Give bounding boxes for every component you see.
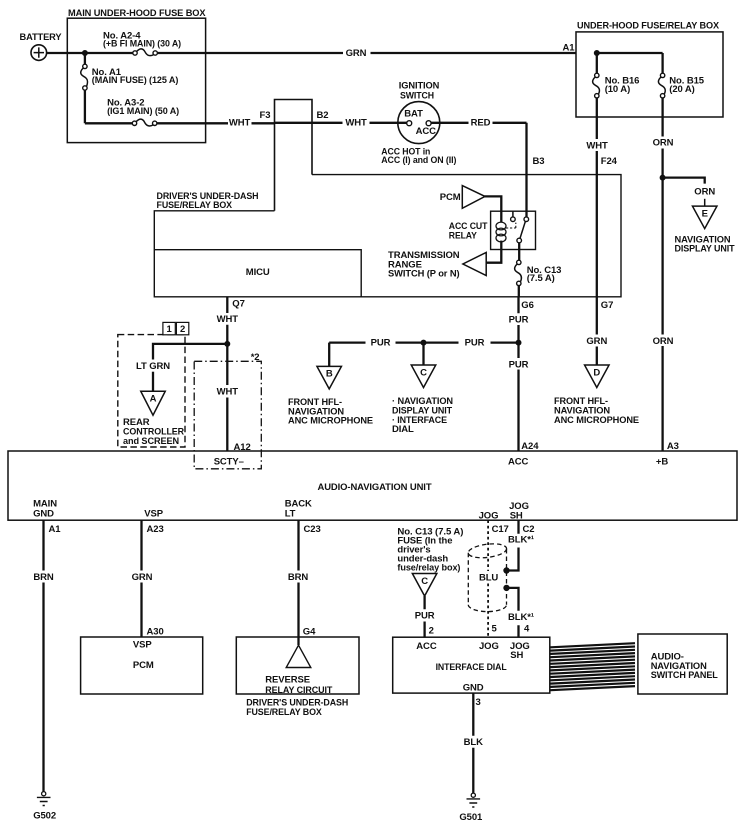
- wire ORN B15 down: [653, 138, 674, 451]
- svg-text:AUDIO-NAVIGATION UNIT: AUDIO-NAVIGATION UNIT: [318, 482, 432, 493]
- svg-text:D: D: [593, 367, 600, 378]
- svg-text:DISPLAY UNIT: DISPLAY UNIT: [675, 243, 735, 254]
- svg-text:B3: B3: [533, 156, 545, 167]
- rear controller dashed box: [118, 335, 185, 447]
- driver under-dash box F3/B2 pass-through bridge: [260, 100, 329, 211]
- svg-text:*2: *2: [251, 352, 260, 363]
- svg-text:FUSE/RELAY BOX: FUSE/RELAY BOX: [157, 200, 233, 211]
- connector pin squares 1 2: [163, 322, 189, 335]
- wire GRN battery to under-hood fuse/relay box A1: [47, 48, 576, 59]
- wire battery junction down to IG1 feed: [85, 53, 275, 123]
- wire JOG C17 dashed to pin 5: [479, 520, 498, 637]
- svg-text:and SCREEN: and SCREEN: [123, 436, 179, 447]
- svg-text:BATTERY: BATTERY: [20, 32, 63, 43]
- wire PUR G6 to A24: [509, 297, 540, 452]
- wire relay switch to fuse C13: [518, 243, 520, 260]
- svg-text:SWITCH PANEL: SWITCH PANEL: [651, 670, 718, 681]
- svg-text:JOG: JOG: [479, 511, 499, 522]
- ground G501: [459, 793, 483, 823]
- wire PUR connector C to interface dial pin 2: [415, 596, 435, 637]
- label ACC at A24: [508, 456, 529, 467]
- ignition switch: [381, 80, 456, 166]
- svg-text:GND: GND: [33, 508, 54, 519]
- svg-text:SWITCH (P or N): SWITCH (P or N): [388, 269, 460, 280]
- pin labels inside audio-navigation unit: [33, 499, 529, 522]
- svg-text:F24: F24: [601, 156, 618, 167]
- svg-text:(MAIN FUSE) (125 A): (MAIN FUSE) (125 A): [92, 75, 179, 86]
- wire WHT B2 to ignition switch BAT: [275, 118, 407, 129]
- svg-text:Q7: Q7: [232, 299, 244, 310]
- svg-text:GRN: GRN: [132, 572, 153, 583]
- svg-text:GRN: GRN: [586, 336, 607, 347]
- svg-text:BLK: BLK: [464, 737, 483, 748]
- wire PUR horizontal to microphones: [329, 337, 521, 348]
- svg-text:PUR: PUR: [465, 337, 485, 348]
- svg-text:SH: SH: [510, 650, 523, 661]
- svg-text:ACC (I) and ON (II): ACC (I) and ON (II): [381, 155, 456, 166]
- svg-text:VSP: VSP: [133, 640, 152, 651]
- label SCTY- at A12: [214, 456, 244, 467]
- svg-text:C2: C2: [523, 524, 535, 535]
- svg-text:BAT: BAT: [404, 108, 423, 119]
- svg-text:MICU: MICU: [246, 267, 270, 278]
- svg-text:ANC MICROPHONE: ANC MICROPHONE: [288, 416, 373, 427]
- connector B front HFL-navigation ANC microphone: [288, 343, 373, 427]
- svg-text:PUR: PUR: [509, 359, 529, 370]
- svg-text:E: E: [702, 208, 708, 219]
- svg-text:WHT: WHT: [586, 141, 608, 152]
- svg-text:PUR: PUR: [509, 315, 529, 326]
- svg-text:fuse/relay box): fuse/relay box): [397, 562, 460, 573]
- svg-text:4: 4: [524, 624, 530, 635]
- ground G502: [33, 792, 56, 822]
- wire WHT Q7 from MICU: [217, 297, 245, 344]
- svg-text:ACC: ACC: [416, 126, 437, 137]
- wire WHT B16 to F24: [586, 141, 617, 297]
- svg-text:SCTY–: SCTY–: [214, 456, 244, 467]
- wire GRN A23 to PCM A30: [132, 520, 164, 637]
- svg-text:G6: G6: [521, 300, 533, 311]
- svg-text:LT: LT: [285, 508, 296, 519]
- svg-text:VSP: VSP: [144, 508, 163, 519]
- svg-text:G7: G7: [601, 300, 613, 311]
- svg-text:WHT: WHT: [217, 387, 239, 398]
- svg-text:GND: GND: [463, 683, 484, 694]
- svg-text:(10 A): (10 A): [605, 84, 630, 95]
- driver's under-dash fuse/relay box outline: [154, 175, 621, 297]
- svg-text:JOG: JOG: [479, 641, 499, 652]
- svg-text:(20 A): (20 A): [669, 84, 694, 95]
- svg-text:LT GRN: LT GRN: [136, 361, 170, 372]
- label driver's under-dash fuse/relay box (bottom): [246, 698, 348, 719]
- shield cylinder BLU: [467, 542, 507, 612]
- svg-text:A: A: [150, 394, 157, 405]
- relay ACC CUT RELAY: [449, 211, 536, 249]
- wire PCM to relay coil: [485, 196, 502, 222]
- svg-text:5: 5: [492, 624, 498, 635]
- svg-text:BRN: BRN: [33, 572, 54, 583]
- svg-text:PUR: PUR: [371, 337, 391, 348]
- svg-text:BLK*¹: BLK*¹: [508, 612, 534, 623]
- under-hood fuse/relay box outline: [563, 20, 724, 117]
- ribbon cable to switch panel: [551, 643, 636, 690]
- main under-hood fuse box outline: [67, 8, 206, 142]
- svg-text:B: B: [326, 369, 333, 380]
- wire branch to rear controller: [136, 344, 227, 391]
- transmission range switch triangle: [388, 250, 501, 280]
- node ORN branch junction: [660, 175, 665, 180]
- audio-navigation switch panel box: [638, 634, 727, 694]
- svg-text:UNDER-HOOD FUSE/RELAY BOX: UNDER-HOOD FUSE/RELAY BOX: [577, 20, 720, 31]
- svg-text:C23: C23: [304, 524, 321, 535]
- fuse C13 note text: [397, 526, 463, 573]
- fuse No.B15 (20 A): [658, 53, 704, 137]
- svg-text:ORN: ORN: [653, 138, 674, 149]
- PCM box: [81, 637, 203, 694]
- wire RED ignition ACC to B3: [431, 118, 544, 217]
- interface dial box: [393, 637, 550, 693]
- svg-text:WHT: WHT: [217, 314, 239, 325]
- MICU box: [154, 250, 361, 297]
- svg-text:B2: B2: [317, 110, 329, 121]
- svg-text:C17: C17: [492, 524, 509, 535]
- svg-text:PCM: PCM: [133, 660, 154, 671]
- fuse No.B16 (10 A): [593, 53, 640, 139]
- relay switch contact and blade: [506, 217, 529, 243]
- relay coil: [496, 222, 506, 249]
- fuse No.A1 (MAIN FUSE)(125 A): [81, 64, 179, 90]
- svg-text:MAIN UNDER-HOOD FUSE BOX: MAIN UNDER-HOOD FUSE BOX: [68, 8, 206, 19]
- svg-text:FUSE/RELAY BOX: FUSE/RELAY BOX: [246, 707, 322, 718]
- fuse No.C13 (7.5 A) in relay leg: [515, 260, 562, 297]
- node battery junction: [82, 51, 87, 56]
- wire GRN G7 to connector D: [586, 297, 613, 365]
- svg-text:BLK*¹: BLK*¹: [508, 535, 534, 546]
- svg-text:(7.5 A): (7.5 A): [527, 273, 555, 284]
- svg-text:GRN: GRN: [346, 48, 367, 59]
- svg-text:PCM: PCM: [440, 192, 461, 203]
- label WHT wire to F3: [229, 118, 251, 129]
- svg-text:3: 3: [476, 697, 481, 708]
- svg-text:BLU: BLU: [479, 572, 498, 583]
- PCM triangle (coil drive): [440, 186, 485, 209]
- svg-text:ACC: ACC: [416, 641, 437, 652]
- svg-text:A23: A23: [147, 524, 164, 535]
- node A1 feed junction: [594, 51, 662, 56]
- pin numbers below audio-navigation unit: [49, 524, 535, 535]
- fuse No.A2-4 (+B FI MAIN)(30 A): [103, 30, 181, 55]
- svg-text:C: C: [420, 367, 427, 378]
- svg-text:RELAY CIRCUIT: RELAY CIRCUIT: [265, 685, 332, 696]
- connector E navigation display unit: [675, 206, 735, 254]
- dash-dot option box *2: [194, 352, 261, 469]
- node Q7 branch junction: [225, 341, 230, 346]
- wire WHT to A12: [217, 344, 251, 453]
- svg-text:A30: A30: [147, 627, 164, 638]
- svg-text:INTERFACE DIAL: INTERFACE DIAL: [436, 662, 507, 673]
- wire ORN branch to navigation display unit: [663, 178, 716, 207]
- reverse relay circuit box: [236, 637, 359, 696]
- svg-text:1: 1: [167, 324, 173, 335]
- svg-text:SH: SH: [510, 511, 523, 522]
- svg-text:ORN: ORN: [653, 336, 674, 347]
- svg-text:G502: G502: [33, 811, 56, 822]
- svg-text:WHT: WHT: [345, 118, 367, 129]
- battery BATTERY: [20, 32, 63, 60]
- connector D front HFL-navigation ANC microphone: [554, 365, 639, 426]
- svg-text:G501: G501: [459, 812, 483, 823]
- svg-text:WHT: WHT: [229, 118, 251, 129]
- svg-text:ANC MICROPHONE: ANC MICROPHONE: [554, 415, 639, 426]
- svg-text:DIAL: DIAL: [392, 424, 414, 435]
- svg-text:RED: RED: [471, 118, 491, 129]
- connector A rear controller: [123, 391, 184, 447]
- fuse No.A3-2 (IG1 MAIN)(50 A): [107, 98, 179, 126]
- wire BLK C2 JOG SH shield drain: [504, 520, 534, 637]
- relay middle pin: [511, 211, 516, 221]
- svg-text:G4: G4: [303, 627, 316, 638]
- connector C fuse feed: [412, 574, 437, 597]
- svg-text:ACC: ACC: [508, 456, 529, 467]
- wire BLK GND pin 3 to G501: [464, 693, 483, 793]
- svg-text:RELAY: RELAY: [449, 231, 478, 242]
- label A3 +B: [656, 441, 679, 467]
- svg-text:REVERSE: REVERSE: [265, 675, 310, 686]
- svg-text:F3: F3: [260, 110, 271, 121]
- svg-text:2: 2: [429, 625, 434, 636]
- svg-text:(IG1 MAIN) (50 A): (IG1 MAIN) (50 A): [107, 106, 179, 117]
- svg-text:BRN: BRN: [288, 572, 309, 583]
- connector C navigation display unit / interface dial: [392, 340, 453, 435]
- svg-text:SWITCH: SWITCH: [400, 91, 434, 102]
- svg-text:A1: A1: [563, 42, 576, 53]
- wire BRN C23 to reverse relay G4: [288, 520, 316, 637]
- svg-text:+B: +B: [656, 456, 668, 467]
- svg-text:(+B FI MAIN) (30 A): (+B FI MAIN) (30 A): [103, 39, 181, 50]
- audio-navigation unit box: [8, 451, 737, 520]
- svg-text:PUR: PUR: [415, 611, 435, 622]
- svg-text:2: 2: [180, 324, 185, 335]
- svg-text:C: C: [421, 576, 428, 587]
- wire BRN A1 to G502: [33, 520, 54, 791]
- svg-text:ORN: ORN: [694, 186, 715, 197]
- svg-text:A1: A1: [49, 524, 62, 535]
